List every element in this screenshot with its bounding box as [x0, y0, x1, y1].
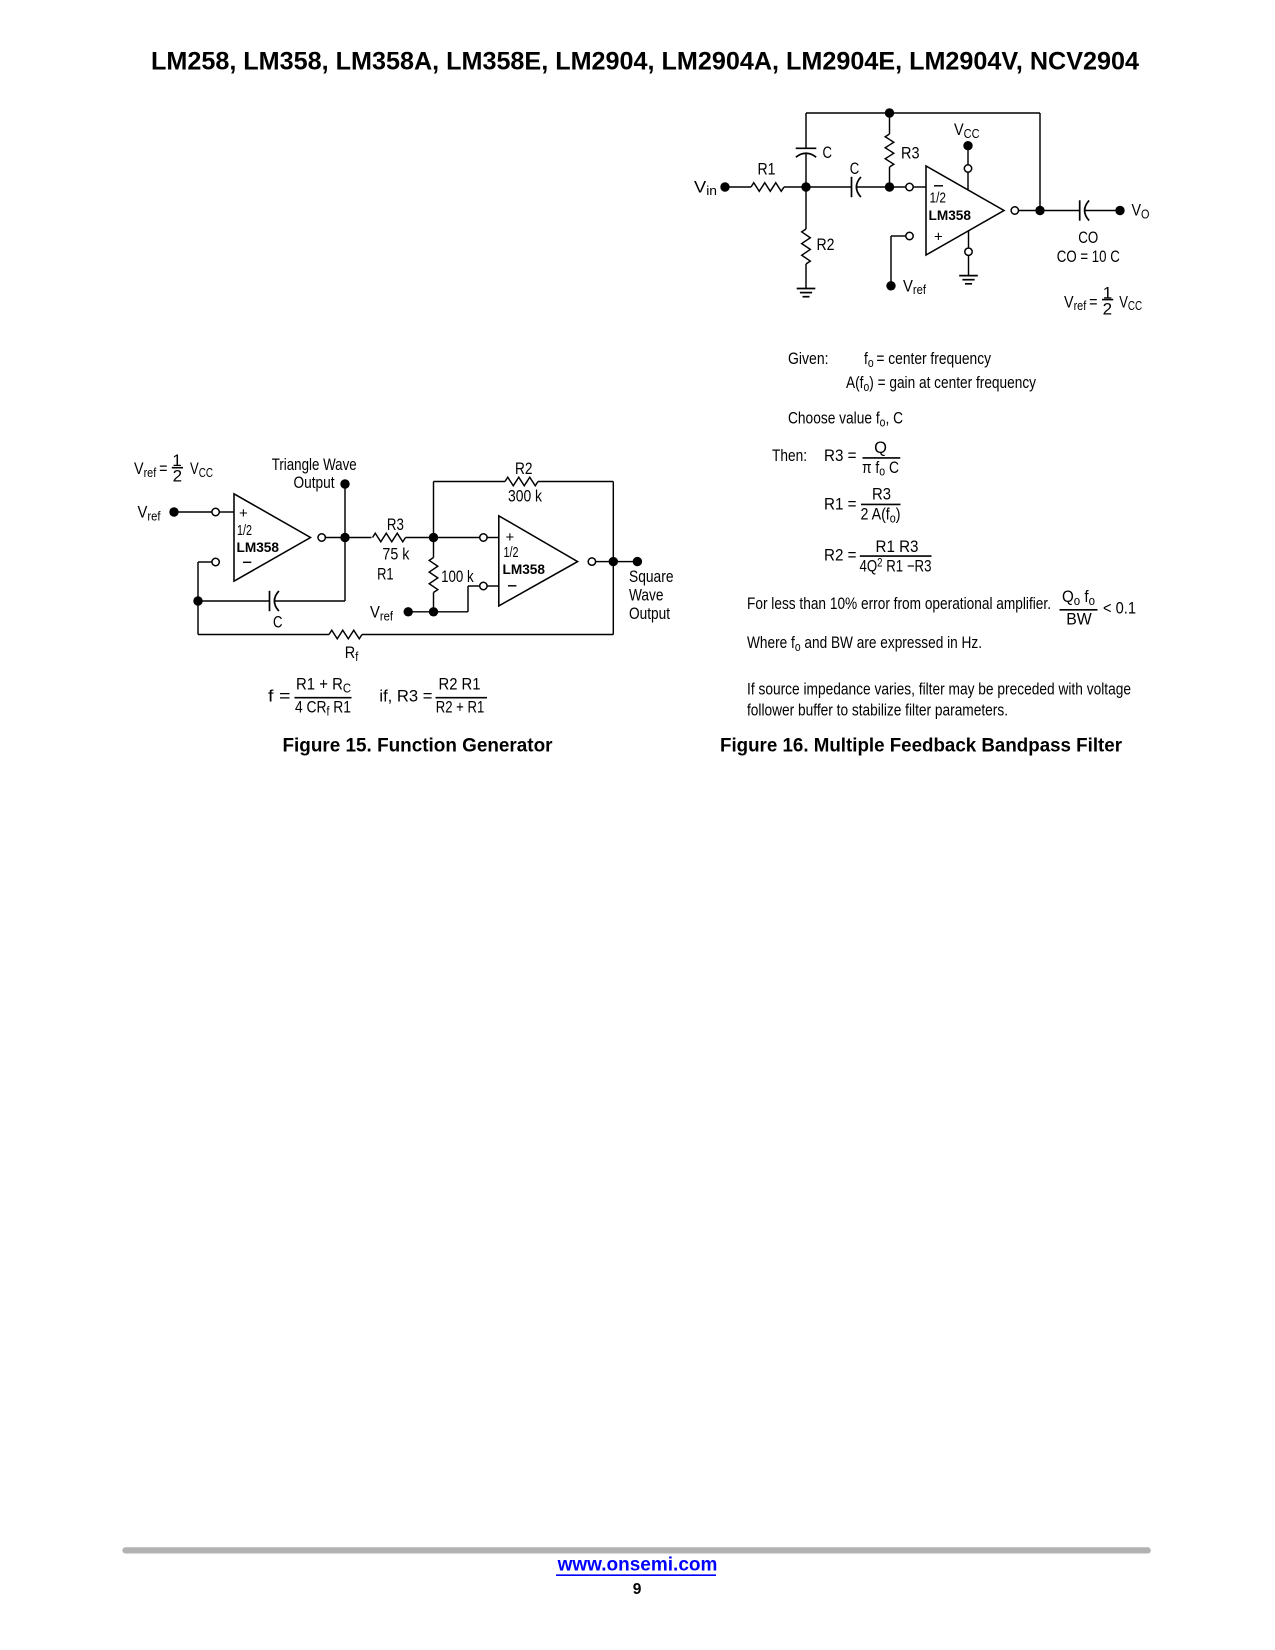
svg-text:1/2: 1/2 [504, 544, 519, 561]
svg-text:BW: BW [1066, 611, 1092, 629]
svg-text:If source impedance varies, fi: If source impedance varies, filter may b… [747, 681, 1131, 699]
svg-text:C: C [850, 160, 860, 178]
svg-text:if, R3 =: if, R3 = [379, 687, 432, 705]
svg-text:www.onsemi.com: www.onsemi.com [557, 1555, 718, 1576]
svg-text:1/2: 1/2 [930, 190, 947, 207]
svg-text:Triangle Wave: Triangle Wave [272, 456, 357, 474]
svg-text:R3: R3 [387, 516, 404, 534]
svg-text:9: 9 [633, 1581, 642, 1598]
svg-text:Given:: Given: [788, 350, 829, 368]
svg-text:R1 R3: R1 R3 [876, 538, 919, 556]
svg-text:R3 =: R3 = [824, 447, 857, 465]
svg-text:CO = 10 C: CO = 10 C [1057, 248, 1120, 266]
svg-text:+: + [239, 505, 248, 522]
svg-text:Square: Square [629, 568, 674, 586]
svg-text:LM258, LM358, LM358A, LM358E,: LM258, LM358, LM358A, LM358E, LM2904, LM… [151, 48, 1139, 76]
svg-text:100 k: 100 k [441, 568, 474, 586]
svg-text:Output: Output [294, 474, 335, 492]
svg-text:2: 2 [1103, 299, 1112, 318]
svg-text:Figure 16. Multiple Feedback B: Figure 16. Multiple Feedback Bandpass Fi… [720, 736, 1123, 757]
svg-text:R2: R2 [817, 236, 835, 254]
svg-text:R3: R3 [872, 486, 891, 504]
svg-text:fo​ = center frequency: fo​ = center frequency [864, 350, 992, 370]
svg-text:300 k: 300 k [508, 488, 543, 506]
svg-text:R1: R1 [758, 161, 776, 179]
svg-text:Q: Q [874, 439, 887, 457]
svg-text:LM358: LM358 [503, 561, 546, 577]
svg-text:C: C [823, 144, 833, 162]
svg-text:Output: Output [629, 605, 670, 623]
svg-text:R1 + RC​: R1 + RC​ [296, 676, 351, 696]
svg-text:R2 + R1: R2 + R1 [436, 699, 485, 717]
svg-text:Choose value fo​, C: Choose value fo​, C [788, 410, 903, 430]
svg-text:R2 R1: R2 R1 [439, 676, 481, 694]
svg-text:4Q2​ R1 −R3: 4Q2​ R1 −R3 [860, 556, 932, 576]
svg-text:< 0.1: < 0.1 [1103, 600, 1136, 618]
svg-text:f =: f = [268, 687, 291, 705]
svg-text:follower buffer to stabilize f: follower buffer to stabilize filter para… [747, 702, 1008, 720]
svg-text:R1 =: R1 = [824, 496, 857, 514]
svg-text:2: 2 [173, 467, 182, 486]
svg-text:Wave: Wave [629, 586, 664, 604]
svg-text:Where fo​ and BW are expressed: Where fo​ and BW are expressed in Hz. [747, 634, 982, 654]
svg-text:R2: R2 [515, 460, 533, 478]
svg-text:CO: CO [1078, 229, 1098, 247]
svg-text:R1: R1 [377, 566, 394, 584]
svg-text:LM358: LM358 [237, 539, 280, 555]
svg-text:R2 =: R2 = [824, 547, 857, 565]
svg-text:LM358: LM358 [929, 207, 972, 223]
svg-text:+: + [934, 228, 943, 245]
svg-text:For less than 10% error from o: For less than 10% error from operational… [747, 595, 1051, 613]
svg-text:Figure 15. Function Generator: Figure 15. Function Generator [283, 736, 554, 757]
svg-text:R3: R3 [901, 145, 920, 163]
svg-text:75 k: 75 k [382, 546, 410, 564]
svg-text:C: C [273, 614, 283, 632]
svg-text:4 CRf​ R1: 4 CRf​ R1 [295, 699, 351, 719]
svg-text:A(fo​) = gain at center freque: A(fo​) = gain at center frequency [846, 374, 1037, 394]
svg-text:1/2: 1/2 [237, 522, 252, 539]
svg-text:Then:: Then: [772, 447, 807, 465]
